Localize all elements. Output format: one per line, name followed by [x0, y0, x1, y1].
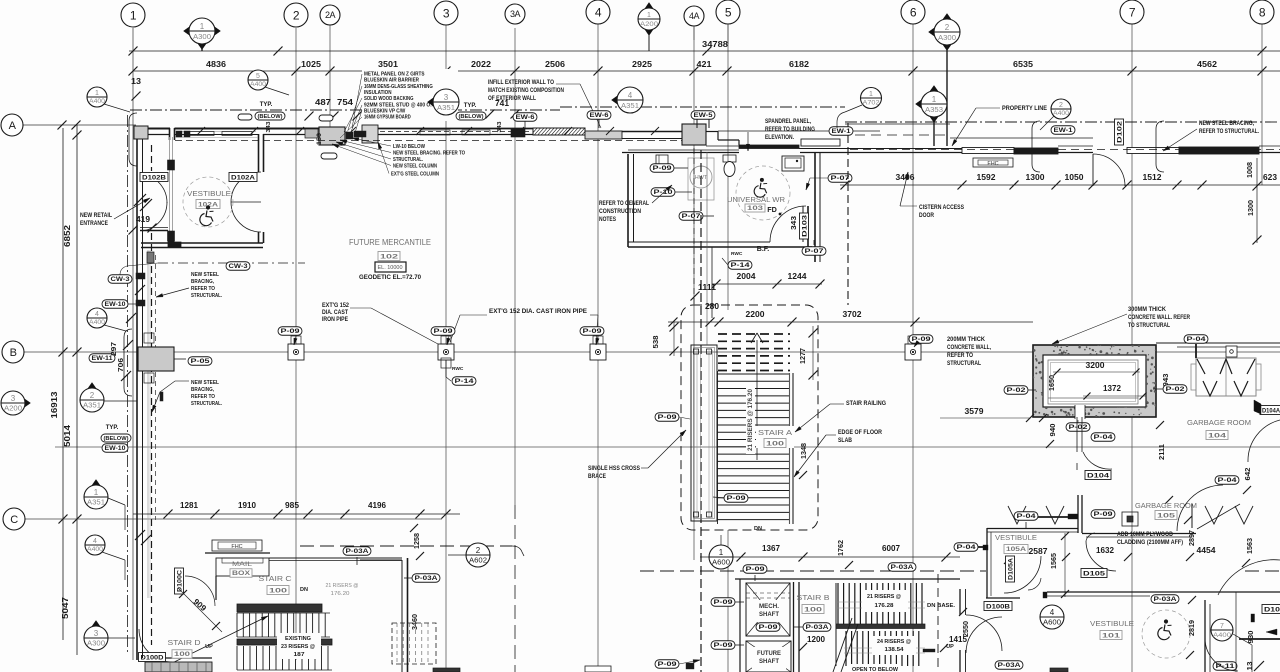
- svg-text:3702: 3702: [843, 310, 862, 319]
- P-11 tag: [1213, 662, 1237, 671]
- svg-text:1650: 1650: [1047, 375, 1056, 391]
- svg-text:1: 1: [932, 95, 937, 104]
- P-07 tag WR bottom: [802, 247, 826, 256]
- svg-text:P-03A: P-03A: [891, 564, 915, 571]
- svg-text:A300: A300: [938, 35, 956, 42]
- future shaft: [746, 641, 791, 672]
- svg-text:STAIR C: STAIR C: [259, 574, 293, 583]
- svg-text:P-09: P-09: [746, 566, 766, 573]
- svg-text:A400: A400: [87, 547, 104, 553]
- FHC cabinet stair C: [212, 540, 262, 551]
- right vertical dim 1008/1300: [1245, 158, 1262, 245]
- vestibule door D102A arcs: [231, 172, 261, 202]
- heavy sill right bottom: [1239, 638, 1280, 640]
- P-04 tag 105a: [1014, 512, 1038, 521]
- detail circle 1/A600: [709, 545, 733, 569]
- stair D label: [168, 638, 214, 658]
- stair B tags: [888, 563, 916, 572]
- svg-text:1258: 1258: [412, 533, 421, 549]
- D102B tag: [140, 173, 168, 182]
- svg-text:STAIR A: STAIR A: [758, 428, 793, 437]
- svg-text:GARBAGE ROOM: GARBAGE ROOM: [1135, 501, 1197, 510]
- grid line C: [25, 518, 442, 520]
- RWC + P-14 at grid 3: [441, 358, 476, 385]
- grid line 5: [727, 24, 729, 310]
- svg-text:SHAFT: SHAFT: [759, 659, 779, 665]
- svg-text:6852: 6852: [62, 225, 72, 247]
- shaft dims: [1047, 361, 1170, 400]
- room label universal WR: [727, 195, 785, 215]
- svg-text:2: 2: [1059, 102, 1063, 109]
- svg-text:FHC: FHC: [231, 544, 242, 550]
- svg-text:3: 3: [94, 629, 99, 638]
- svg-text:150: 150: [317, 132, 323, 145]
- grid line 3A: [514, 28, 516, 505]
- svg-text:297: 297: [109, 342, 118, 356]
- svg-text:2200: 2200: [746, 310, 765, 319]
- P-04 heavy leader top: [1038, 516, 1068, 518]
- P-09 stair A left: [655, 413, 679, 422]
- grid bubble 6: [901, 0, 925, 24]
- stair C up diagonal: [162, 616, 268, 668]
- svg-text:100: 100: [174, 651, 191, 658]
- elevator entry chevrons: [1191, 358, 1261, 396]
- svg-text:D10: D10: [1264, 606, 1280, 613]
- svg-text:BRACE: BRACE: [588, 474, 606, 480]
- svg-text:NEW STEEL BRACING. REFER TO: NEW STEEL BRACING. REFER TO: [393, 151, 465, 157]
- P-09 tags at grid B: [278, 327, 302, 336]
- section marker 1/A300: [184, 18, 221, 50]
- svg-text:P-04: P-04: [1017, 513, 1037, 520]
- note edge of floor slab: [794, 430, 883, 477]
- svg-text:D104: D104: [1087, 472, 1110, 479]
- svg-text:102: 102: [380, 253, 399, 260]
- pipe column grid B x=446: [438, 336, 454, 360]
- svg-text:P-07: P-07: [682, 213, 702, 220]
- svg-text:4: 4: [595, 5, 602, 19]
- svg-text:1: 1: [200, 22, 205, 31]
- svg-text:D104A: D104A: [1262, 407, 1280, 414]
- note 300mm leader: [1052, 314, 1127, 344]
- svg-text:INFILL EXTERIOR WALL TO: INFILL EXTERIOR WALL TO: [488, 80, 554, 86]
- svg-text:STRUCTURAL.: STRUCTURAL.: [191, 293, 222, 299]
- sink counter: [782, 156, 804, 171]
- svg-text:6: 6: [910, 5, 917, 19]
- stair B enclosure walls: [735, 579, 960, 672]
- EW-11 tag: [89, 354, 115, 363]
- svg-text:A400: A400: [89, 320, 106, 326]
- stair A label: [756, 426, 794, 448]
- svg-text:BLUESKIN VP C/W: BLUESKIN VP C/W: [364, 108, 406, 114]
- svg-text:176.28: 176.28: [875, 603, 895, 609]
- svg-text:100: 100: [766, 440, 785, 447]
- left dimension lines: [58, 121, 82, 656]
- svg-text:BOX: BOX: [232, 570, 251, 577]
- svg-text:GARBAGE ROOM: GARBAGE ROOM: [1187, 418, 1251, 427]
- svg-text:EXISTING: EXISTING: [285, 636, 311, 642]
- P-03A bottom left tag: [995, 661, 1023, 670]
- note new steel bracing left1: [156, 272, 222, 299]
- ext cast iron pipe note left: [322, 303, 438, 344]
- garbage 105 right chevrons: [1197, 504, 1253, 529]
- grid bubble B: [2, 341, 24, 363]
- 24 risers text: [872, 636, 916, 655]
- svg-text:1025: 1025: [301, 59, 321, 69]
- svg-text:487: 487: [315, 98, 332, 107]
- svg-text:7: 7: [1220, 623, 1224, 630]
- FHC cabinet top right: [973, 158, 1013, 167]
- D106 tag right edge: [1262, 605, 1280, 614]
- leader bracket top-left: [129, 113, 137, 166]
- svg-text:STRUCTURAL.: STRUCTURAL.: [393, 157, 423, 163]
- grid line 2A: [329, 25, 331, 130]
- P-03A tags stair C: [343, 547, 371, 556]
- svg-text:A351: A351: [87, 499, 105, 506]
- grid bubble 4: [586, 0, 610, 24]
- svg-text:1563: 1563: [1245, 538, 1254, 554]
- svg-text:BLUESKIN AIR BARRIER: BLUESKIN AIR BARRIER: [364, 78, 419, 84]
- right side door arcs: [1177, 485, 1238, 671]
- stair C label: [259, 574, 308, 595]
- grid line B: [24, 351, 1280, 353]
- svg-text:D103: D103: [801, 214, 808, 237]
- exterior wall top band left part: [134, 126, 170, 139]
- svg-text:706: 706: [116, 358, 125, 372]
- steel column grid B: [138, 347, 186, 371]
- svg-text:TYP.: TYP.: [464, 103, 477, 109]
- arrowhead left: [1266, 629, 1277, 635]
- svg-text:D100C: D100C: [176, 570, 183, 592]
- wall slashes left: [134, 194, 146, 206]
- svg-text:1762: 1762: [836, 540, 845, 556]
- svg-text:REFER TO GENERAL: REFER TO GENERAL: [599, 201, 649, 207]
- svg-text:D102A: D102A: [231, 174, 255, 181]
- tags top wall: [587, 111, 611, 120]
- stair B mid landing: [836, 624, 925, 629]
- svg-text:NEW STEEL COLUMN: NEW STEEL COLUMN: [393, 164, 437, 170]
- stair A railing: [718, 371, 794, 524]
- svg-text:SINGLE HSS CROSS: SINGLE HSS CROSS: [588, 466, 640, 472]
- svg-text:4454: 4454: [1197, 546, 1216, 555]
- svg-text:985: 985: [285, 501, 299, 510]
- svg-text:300MM THICK: 300MM THICK: [1128, 307, 1167, 313]
- svg-text:TYP.: TYP.: [106, 425, 119, 431]
- wall grid2 to hatch: [362, 125, 533, 143]
- svg-text:A300: A300: [193, 34, 211, 41]
- grid bubble 2A: [320, 5, 340, 25]
- grid line 2: [295, 28, 297, 660]
- stair B treads upper: [836, 583, 925, 626]
- stair A up arrow: [751, 333, 763, 460]
- svg-text:CISTERN ACCESS: CISTERN ACCESS: [919, 205, 964, 211]
- svg-text:4: 4: [95, 311, 99, 318]
- section marker 2/A351: [80, 383, 104, 413]
- garbage 105 chevron doors: [985, 504, 1078, 528]
- grid bubble 4A: [684, 6, 704, 26]
- svg-text:P-03A: P-03A: [998, 662, 1022, 669]
- svg-text:13: 13: [131, 76, 141, 86]
- open to below text: [850, 664, 900, 672]
- vestibule 102A walls: [140, 128, 264, 248]
- door D103 arc: [770, 206, 806, 242]
- svg-text:EL. 10000: EL. 10000: [378, 265, 403, 271]
- svg-text:METAL PANEL ON Z GIRTS: METAL PANEL ON Z GIRTS: [364, 72, 425, 78]
- svg-text:P-14: P-14: [731, 262, 751, 269]
- svg-text:VESTIBULE: VESTIBULE: [995, 535, 1037, 542]
- svg-text:2: 2: [90, 391, 95, 400]
- svg-text:A351: A351: [437, 105, 455, 112]
- D105A tag vertical: [1006, 556, 1015, 582]
- vestibule door D102B arcs: [142, 174, 167, 203]
- svg-text:PROPERTY LINE: PROPERTY LINE: [1002, 106, 1047, 112]
- svg-text:ENTRANCE: ENTRANCE: [80, 221, 108, 227]
- grid line 4: [597, 24, 599, 672]
- note 300mm text top: [1128, 307, 1191, 329]
- svg-text:1: 1: [719, 548, 724, 557]
- svg-text:1300: 1300: [1026, 173, 1045, 182]
- canopy dash-dot line: [158, 262, 305, 264]
- svg-text:INSULATION: INSULATION: [364, 90, 392, 96]
- stair C right wall: [360, 558, 408, 672]
- svg-text:343: 343: [789, 216, 798, 230]
- svg-text:TYP.: TYP.: [260, 102, 273, 108]
- note LW-10 below: [332, 138, 465, 178]
- svg-text:3: 3: [443, 6, 450, 20]
- svg-text:2: 2: [945, 23, 950, 32]
- svg-text:4562: 4562: [1197, 59, 1217, 69]
- svg-text:UP: UP: [205, 644, 213, 650]
- svg-text:CW-3: CW-3: [111, 276, 131, 283]
- heavy dashed vertical brace line: [700, 150, 702, 672]
- mail box label: [230, 561, 252, 577]
- vestibule bottom walls: [960, 589, 1280, 672]
- WR dashed circle: [736, 166, 790, 220]
- dimension line top segments: [129, 59, 1280, 76]
- wheelchair universal WR: [754, 178, 767, 197]
- bubble stems: [693, 26, 695, 40]
- grid bubble 3: [434, 1, 458, 25]
- svg-text:2A: 2A: [325, 10, 336, 20]
- stair B dashed boundary right: [937, 574, 939, 672]
- svg-text:1348: 1348: [799, 443, 808, 459]
- vestibule 105A label: [995, 535, 1037, 554]
- svg-text:EXT'G 152 DIA. CAST IRON PIPE: EXT'G 152 DIA. CAST IRON PIPE: [489, 309, 587, 315]
- svg-text:6182: 6182: [789, 59, 809, 69]
- svg-text:21 RISERS @: 21 RISERS @: [326, 583, 359, 589]
- svg-text:16MM GYPSUM BOARD: 16MM GYPSUM BOARD: [364, 115, 411, 121]
- grid line 6: [912, 24, 914, 672]
- svg-text:P-04: P-04: [1094, 434, 1114, 441]
- D102 tag vertical: [1115, 119, 1124, 145]
- svg-text:100: 100: [269, 587, 288, 594]
- garbage room 105 label: [1135, 501, 1197, 520]
- svg-text:100: 100: [804, 606, 823, 613]
- svg-text:FD: FD: [767, 205, 777, 214]
- svg-text:MECH.: MECH.: [759, 604, 779, 610]
- detail circle 4/A400 lower: [85, 535, 105, 555]
- shaft door jambs below: [1077, 417, 1082, 470]
- svg-text:2022: 2022: [471, 59, 491, 69]
- svg-text:21 RISERS @: 21 RISERS @: [867, 594, 901, 600]
- grid bubble 3A: [505, 4, 525, 24]
- svg-text:B.F.: B.F.: [757, 246, 770, 253]
- leader bracket right 2: [1156, 121, 1164, 172]
- svg-text:419: 419: [136, 215, 150, 224]
- svg-text:2897: 2897: [1187, 530, 1196, 546]
- svg-text:NOTES: NOTES: [599, 217, 616, 223]
- stair A risers text: [746, 388, 755, 454]
- svg-text:STAIR RAILING: STAIR RAILING: [846, 401, 886, 407]
- svg-text:A200: A200: [640, 22, 659, 28]
- svg-text:REFER TO BUILDING: REFER TO BUILDING: [765, 127, 815, 133]
- elevator cab lines: [1048, 360, 1138, 404]
- note plywood cladding: [1117, 532, 1183, 546]
- svg-text:2111: 2111: [1157, 444, 1166, 460]
- svg-text:P-14: P-14: [455, 378, 475, 385]
- stair D enclosure: [137, 600, 216, 672]
- vertical ticks on wall: [197, 127, 205, 135]
- svg-text:SOLID WOOD BACKING: SOLID WOOD BACKING: [364, 96, 414, 102]
- door D100C arc: [185, 576, 215, 606]
- svg-text:REFER TO: REFER TO: [191, 394, 215, 400]
- detail circle 1/A702: [861, 88, 882, 109]
- D100C tag vertical: [175, 568, 184, 594]
- svg-text:A351: A351: [621, 103, 639, 110]
- note infill exterior wall: [488, 80, 601, 128]
- door D102 top right: [1093, 154, 1125, 186]
- junction box 105: [1122, 512, 1138, 526]
- svg-text:1: 1: [130, 8, 137, 22]
- svg-text:1: 1: [647, 12, 651, 19]
- svg-text:930: 930: [1246, 631, 1255, 644]
- svg-text:P-02: P-02: [1007, 387, 1027, 394]
- svg-text:3: 3: [11, 394, 16, 403]
- HWT tank: [688, 158, 714, 200]
- detail circle 5/A400: [248, 70, 268, 90]
- elevator shaft concrete walls: [1032, 344, 1157, 418]
- svg-text:P-05: P-05: [191, 358, 211, 365]
- 1/A600 stem: [720, 535, 722, 545]
- svg-text:280: 280: [705, 302, 719, 311]
- P-02 tags shaft: [1004, 386, 1028, 395]
- svg-text:2587: 2587: [1029, 547, 1048, 556]
- svg-text:1367: 1367: [762, 544, 780, 553]
- svg-text:101: 101: [1102, 632, 1121, 639]
- pipe column grid B x=598: [590, 336, 606, 360]
- black block: [346, 132, 353, 139]
- svg-text:P-03A: P-03A: [806, 624, 830, 631]
- svg-text:(BELOW): (BELOW): [459, 114, 484, 120]
- stair C risers text 2: [322, 580, 362, 597]
- svg-text:1910: 1910: [238, 501, 256, 510]
- svg-text:A400: A400: [1213, 633, 1232, 639]
- D104A tag: [1260, 406, 1280, 415]
- svg-text:NEW STEEL BRACING,: NEW STEEL BRACING,: [1199, 121, 1254, 127]
- P-03A tag w101: [1151, 595, 1179, 604]
- dashed line grid 4A wall: [847, 123, 849, 305]
- universal WR walls: [628, 152, 820, 262]
- D104 tag: [1085, 471, 1111, 480]
- svg-text:5: 5: [725, 5, 732, 19]
- svg-text:MAIL: MAIL: [232, 561, 252, 568]
- detail circle 1/A400: [87, 87, 107, 107]
- grid line 3: [445, 25, 447, 672]
- svg-text:4: 4: [628, 91, 633, 100]
- interior dashed line below top wall: [175, 140, 690, 142]
- svg-text:TO STRUCTURAL: TO STRUCTURAL: [1128, 323, 1170, 329]
- svg-text:OPEN TO BELOW: OPEN TO BELOW: [852, 667, 898, 672]
- note stair railing: [795, 401, 886, 432]
- spandrel ledge: [706, 145, 739, 147]
- svg-text:D102B: D102B: [142, 174, 166, 181]
- note metal panel stack: [340, 69, 458, 138]
- toilet: [723, 155, 736, 177]
- svg-text:CLADDING (2100MM AFF): CLADDING (2100MM AFF): [1117, 540, 1183, 546]
- note new retail entrance: [80, 198, 150, 227]
- svg-text:DN: DN: [300, 587, 308, 593]
- garbage room top wall: [1156, 343, 1280, 347]
- WR dims 2004 1244: [712, 272, 825, 289]
- section marker 1/A351: [84, 480, 108, 510]
- svg-text:FHC: FHC: [987, 161, 998, 167]
- svg-text:8: 8: [1259, 5, 1266, 19]
- section marker 3/A300: [84, 621, 108, 651]
- svg-text:6007: 6007: [882, 544, 900, 553]
- wall line x1236: [1235, 592, 1237, 672]
- TYP BELOW EW-10 lower: [101, 425, 131, 452]
- svg-text:104: 104: [1208, 432, 1227, 439]
- svg-text:P-03A: P-03A: [1154, 596, 1178, 603]
- grid bubble A: [1, 114, 23, 136]
- D100D tag: [139, 653, 166, 662]
- svg-text:CW-3: CW-3: [229, 263, 249, 270]
- svg-text:1: 1: [95, 90, 99, 97]
- P-14 tag WR: [728, 261, 752, 270]
- pipe column grid B x=913: [905, 336, 921, 360]
- svg-text:3200: 3200: [1086, 361, 1105, 370]
- svg-text:3579: 3579: [965, 407, 984, 416]
- note property line: [952, 106, 1047, 146]
- svg-text:STRUCTURAL: STRUCTURAL: [947, 361, 981, 367]
- svg-text:(BELOW): (BELOW): [104, 436, 129, 442]
- svg-text:P-04: P-04: [1187, 336, 1207, 343]
- left exterior wall vertical: [128, 115, 152, 655]
- svg-text:EDGE OF FLOOR: EDGE OF FLOOR: [838, 430, 883, 436]
- svg-text:P-02: P-02: [1166, 386, 1186, 393]
- svg-text:DOOR: DOOR: [919, 213, 935, 219]
- svg-text:C: C: [10, 514, 18, 526]
- tick bottom right: [1254, 661, 1264, 671]
- grid bubble 1: [121, 3, 145, 27]
- section marker 3/A351: [428, 89, 460, 115]
- svg-text:P-09: P-09: [759, 624, 779, 631]
- grid line 7: [1131, 24, 1133, 672]
- glazing line below vestibule: [147, 250, 149, 598]
- steel column grid 2: [319, 127, 345, 145]
- svg-text:1200: 1200: [807, 635, 825, 644]
- grid bubble 5: [716, 0, 740, 24]
- grid bubble 8: [1250, 0, 1274, 24]
- section marker 3/A200: [1, 391, 31, 415]
- pipe box WR corner: [656, 155, 668, 164]
- svg-text:REFER TO: REFER TO: [191, 286, 215, 292]
- svg-text:CONCRETE WALL. REFER: CONCRETE WALL. REFER: [1128, 315, 1191, 321]
- svg-text:A353: A353: [925, 107, 943, 114]
- svg-text:P-09: P-09: [1094, 511, 1114, 518]
- svg-text:P-09: P-09: [658, 661, 678, 668]
- svg-text:(BELOW): (BELOW): [258, 114, 283, 120]
- svg-text:21 RISERS @ 176.20: 21 RISERS @ 176.20: [748, 388, 754, 451]
